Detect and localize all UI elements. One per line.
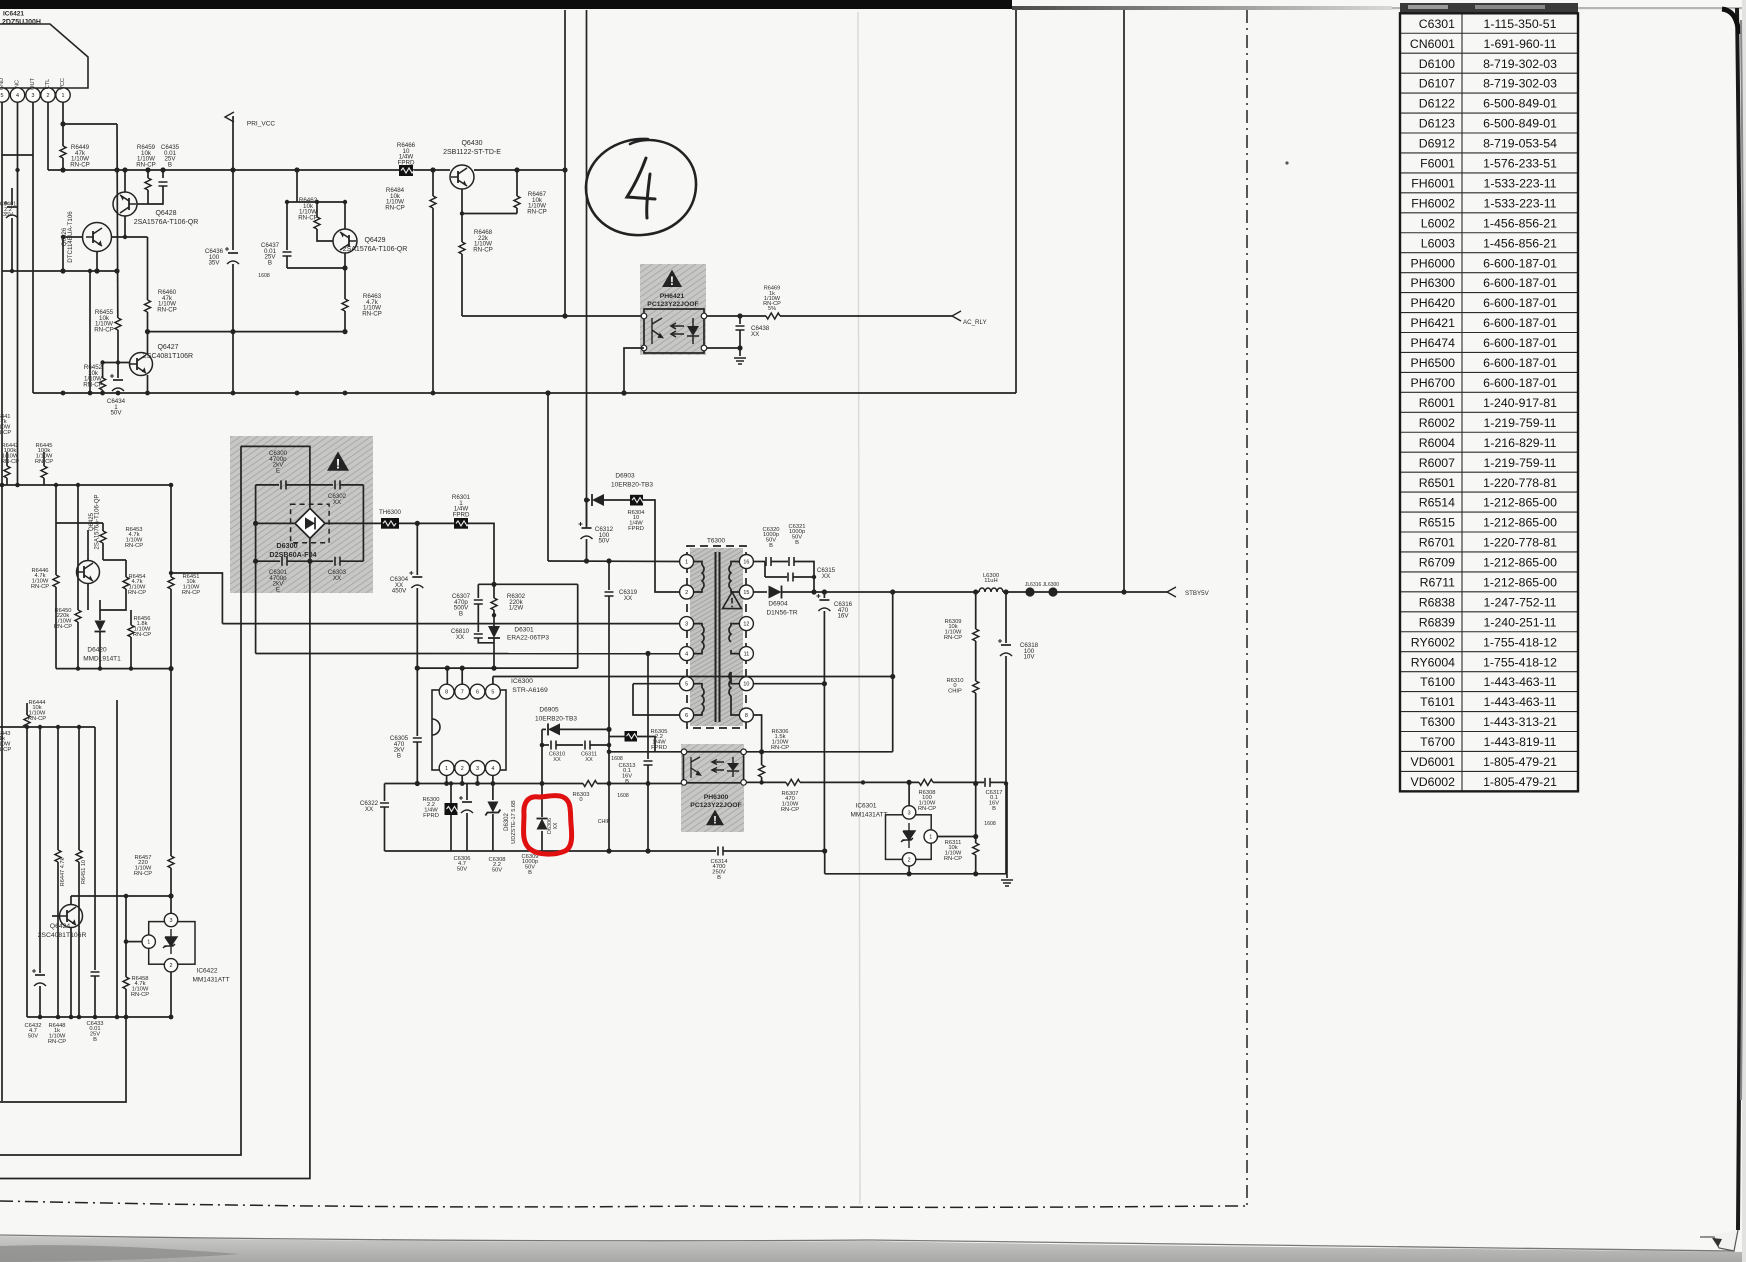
red hand-drawn marker circle around D6306 <box>524 796 572 854</box>
T6300 pin 16 <box>739 555 753 569</box>
capacitor C6320 <box>766 557 771 566</box>
transistor Q6426 DTC114EUA-T106 <box>83 223 112 252</box>
T6300 secondary winding 12-11 <box>729 626 731 642</box>
resistor R6303 <box>583 781 597 787</box>
junction <box>607 781 612 786</box>
T6300 pin 15 <box>739 585 753 599</box>
wire D6306 top <box>541 784 543 818</box>
wire AC relay rail mid <box>705 315 766 317</box>
PH6421 pin <box>701 313 707 319</box>
wire caps to rail <box>794 562 814 593</box>
wire x171 mid <box>170 589 172 856</box>
junction <box>475 781 480 786</box>
wire IC6301 pin3 stub <box>908 782 910 806</box>
zener diode D6302 UDZSTE-17 5.6B <box>487 802 498 813</box>
wire R6459 bottom <box>147 190 149 204</box>
wire C6310 row b <box>556 744 583 746</box>
IC6301 pin 1 <box>924 830 937 843</box>
wire R6309 top <box>975 592 977 629</box>
wire T6300 pin16 stub <box>731 562 740 566</box>
wire C6438 top <box>739 316 741 324</box>
wire IC6301 pin2 down <box>908 866 910 874</box>
capacitor C6303 <box>335 557 340 566</box>
junction <box>116 391 121 396</box>
svg-text:R645910k1/10WRN-CP: R645910k1/10WRN-CP <box>136 144 156 168</box>
wire Q6425 emitter up <box>87 530 89 561</box>
wire x171 to IC6422 <box>170 868 172 913</box>
wire Q6424 emitter down <box>70 927 72 1017</box>
IC6301 pin 2 <box>902 853 915 866</box>
wire x586 C6312 bottom <box>586 539 588 561</box>
svg-text:!: ! <box>336 456 341 471</box>
resistor R6451b <box>76 850 82 862</box>
svg-text:4: 4 <box>685 652 688 658</box>
capacitor C6436 <box>228 252 238 254</box>
svg-text:8: 8 <box>745 713 748 719</box>
wire R6455 to Q6427 base <box>117 330 119 363</box>
jumper JL6316 <box>1025 587 1034 596</box>
wire R6462 top <box>316 202 318 217</box>
wire T6300 pin3 long left <box>222 623 679 625</box>
resistor R6462 <box>314 217 320 229</box>
PH6421 pin <box>641 313 647 319</box>
IC6421 pin label VCC <box>60 78 66 90</box>
wire IC6422 pin1 left <box>126 941 142 943</box>
IC6300 pin 7 <box>455 684 470 699</box>
svg-text:T6300: T6300 <box>707 537 726 544</box>
junction <box>973 834 978 839</box>
svg-text:ERA22-06TP3: ERA22-06TP3 <box>507 635 549 642</box>
junction <box>56 1015 61 1020</box>
wire x79 lower <box>78 862 80 1017</box>
T6300 primary winding 1-2 <box>702 565 704 589</box>
T6300 pin 12 <box>739 617 753 631</box>
op-amp U_PH6421 optocoupler PH6421 symbol <box>644 309 704 353</box>
diode D6905 10ERB20-TB3 <box>548 723 560 735</box>
wire D6420 top <box>99 600 101 620</box>
wire R6305 right <box>637 737 655 752</box>
wire R6302 bottom <box>493 610 495 615</box>
svg-text:15: 15 <box>743 590 749 596</box>
wire R6467 bottom <box>516 208 518 214</box>
wire rail y727 <box>0 726 95 728</box>
svg-text:R6447 4.7k: R6447 4.7k <box>60 857 66 886</box>
diode D6904 D1N56-TR <box>769 586 782 599</box>
junction <box>514 167 519 172</box>
svg-text:C64324.750V: C64324.750V <box>24 1023 41 1040</box>
warning triangle PH6300 <box>706 810 724 826</box>
wire x126 corner to left <box>0 989 126 1102</box>
svg-text:5: 5 <box>491 690 494 696</box>
svg-text:R645210k1/10WRN-CP: R645210k1/10WRN-CP <box>83 364 103 388</box>
wire C6435 top <box>162 170 164 178</box>
wire x824 long down <box>823 611 825 851</box>
wire pin2 stub <box>461 775 463 783</box>
capacitor C6316 <box>819 599 829 601</box>
IC IC6421 body <box>0 24 88 88</box>
svg-text:8: 8 <box>445 690 448 696</box>
svg-text:R646047k1/10WRN-CP: R646047k1/10WRN-CP <box>157 289 177 313</box>
svg-text:C6315XX: C6315XX <box>817 567 836 580</box>
transistor Q6429 2SA1576A-T106-QR <box>333 229 357 253</box>
wire R6484 bottom to rail <box>432 208 434 393</box>
svg-text:3: 3 <box>685 622 688 628</box>
svg-text:Q6430: Q6430 <box>461 140 482 147</box>
wire TH6300 to R6301 <box>399 522 454 524</box>
wire bus y783 left <box>385 783 584 785</box>
svg-text:TH6300: TH6300 <box>379 509 402 516</box>
junction <box>230 329 235 334</box>
svg-text:!: ! <box>670 274 674 288</box>
junction <box>415 781 420 786</box>
wire R6304 to T6300 pin2 <box>643 500 680 592</box>
svg-text:D6903: D6903 <box>615 473 635 480</box>
junction <box>606 558 611 563</box>
resistor R6306 <box>759 765 765 777</box>
svg-text:R6304101/4WFPRD: R6304101/4WFPRD <box>627 510 645 532</box>
T6300 pin 2 <box>680 585 694 599</box>
junction <box>491 582 496 587</box>
wire C6315 row b <box>793 576 814 578</box>
wire R6462 to Q6429 base <box>317 229 333 241</box>
junction <box>343 200 347 204</box>
svg-text:IC6300: IC6300 <box>511 678 533 685</box>
IC6421 pin 2 <box>41 88 55 102</box>
wire vertical x565 from top <box>564 10 566 316</box>
junction <box>122 167 127 172</box>
junction <box>123 235 127 239</box>
junction <box>907 780 912 785</box>
PH6300 pin <box>681 780 687 786</box>
svg-text:IC6301: IC6301 <box>856 803 877 810</box>
junction <box>1004 781 1008 785</box>
T6300 winding 5-6 <box>702 688 704 712</box>
wire T6300 pin6 tie <box>633 684 680 715</box>
svg-text:R6450220k1/10WRN-CP: R6450220k1/10WRN-CP <box>54 608 72 630</box>
wire rail y561 to pin1 <box>548 560 680 563</box>
wire bus y668 <box>417 667 577 669</box>
svg-text:1: 1 <box>929 834 932 840</box>
svg-text:C64370.0125VB: C64370.0125VB <box>261 242 280 266</box>
IC6301 pin 3 <box>902 806 915 819</box>
thermistor TH6300 <box>381 518 399 529</box>
highlight box around optocoupler PH6300 <box>681 744 744 832</box>
wire x542 vertical <box>541 729 543 783</box>
wire T6300 pin8 stub <box>731 696 740 715</box>
wire snubber right side <box>577 584 579 668</box>
svg-text:C63082.250V: C63082.250V <box>488 857 505 874</box>
wire x417 mid <box>416 588 418 736</box>
diode D6903 10ERB20-TB3 <box>592 494 604 506</box>
capacitor C6401 <box>7 206 17 208</box>
junction <box>15 168 19 172</box>
wire D6302 bottom <box>492 814 494 851</box>
junction <box>342 329 347 334</box>
svg-text:1608: 1608 <box>258 273 270 279</box>
svg-text:16: 16 <box>743 559 749 565</box>
junction <box>60 167 65 172</box>
wire R6310 down <box>975 693 977 843</box>
svg-text:PH6421: PH6421 <box>660 293 685 300</box>
wire pin4 stub <box>492 775 494 783</box>
junction <box>25 725 29 729</box>
wire x171 top <box>170 485 172 577</box>
wire T6300 pin4 stub <box>693 650 702 654</box>
wire bus y668 left cluster <box>56 668 171 670</box>
svg-text:2SA1576A-T106-QR: 2SA1576A-T106-QR <box>134 219 199 226</box>
wire T6300 pin10 stub <box>731 672 740 684</box>
zener inside IC6301 <box>901 831 915 842</box>
svg-text:C631647016V: C631647016V <box>834 601 853 619</box>
wire bottom bus y782 a <box>800 781 919 783</box>
wire node pin1 to x117 <box>63 123 117 125</box>
IC6421 pin 3 <box>26 88 40 102</box>
svg-text:C63201000p50VB: C63201000p50VB <box>762 527 779 549</box>
wire R6442 bottom <box>6 478 8 485</box>
wire pin8 stub <box>446 668 448 684</box>
svg-text:R6302220k1/2W: R6302220k1/2W <box>507 593 526 611</box>
svg-text:C64350.0125VB: C64350.0125VB <box>161 144 180 168</box>
junction <box>253 559 258 564</box>
wire T6300 pin12 stub <box>731 624 740 626</box>
wire R6453 bottom <box>102 543 104 560</box>
wire PH6421 cathode down to rail <box>624 348 644 393</box>
wire to R6449 <box>62 124 64 146</box>
resistor R6449 <box>60 146 66 158</box>
warning triangle bridge <box>327 452 349 471</box>
wire x58 down <box>57 727 59 850</box>
diode D6306 <box>537 819 548 830</box>
darker smudge bottom-left <box>0 1245 240 1262</box>
capacitor C6315 <box>788 573 793 582</box>
wire D6420 bottom <box>99 632 101 669</box>
wire pin7 stub <box>461 668 463 684</box>
wire left edge tie <box>2 270 18 272</box>
transistor Q6427 2SC4081T106R <box>130 353 153 376</box>
wire snubber top <box>478 583 577 585</box>
wire C6307-C6810 <box>477 604 479 632</box>
svg-text:R63061.5k1/10WRN-CP: R63061.5k1/10WRN-CP <box>771 729 789 751</box>
wire R6484 top <box>432 170 434 196</box>
svg-text:C6307470p500VB: C6307470p500VB <box>452 593 471 617</box>
resistor R6302 <box>491 598 497 610</box>
wire R6468 to AC rail <box>461 254 463 316</box>
svg-text:PH6300: PH6300 <box>704 794 729 801</box>
resistor R6469 <box>766 313 780 319</box>
wire R6456 bottom <box>130 637 132 669</box>
junction <box>88 391 93 396</box>
resistor R6468 <box>459 242 465 254</box>
svg-text:C6810XX: C6810XX <box>451 628 470 641</box>
wire C6315 stub <box>764 562 766 578</box>
IC6300 pin 1 <box>439 761 454 776</box>
junction <box>646 781 651 786</box>
wire x548 from rail y393 <box>547 393 549 561</box>
PH6300 pin <box>681 749 687 755</box>
resistor R6311 <box>973 843 979 855</box>
resistor R6452 <box>100 378 106 390</box>
hand-drawn digit 4 <box>627 158 655 218</box>
wire D6302 top <box>492 784 494 801</box>
svg-text:C64330.0125VB: C64330.0125VB <box>86 1021 103 1043</box>
PH6300 pin <box>741 749 747 755</box>
optocoupler PH6300 symbol <box>683 752 743 783</box>
junction <box>545 390 550 395</box>
wire rail y851 right <box>723 850 825 852</box>
transistor Q6430 2SB1122-ST-TD-E <box>450 165 474 189</box>
wire R6309-R6310 <box>975 641 977 681</box>
svg-text:R64584.7k1/10WRN-CP: R64584.7k1/10WRN-CP <box>131 976 149 998</box>
junction <box>861 780 865 784</box>
wire x58 lower <box>57 862 59 1017</box>
wire rail y1017 <box>27 1016 171 1018</box>
svg-text:R63030: R63030 <box>572 792 589 803</box>
resistor R6309 <box>973 629 979 641</box>
svg-text:1: 1 <box>62 93 65 99</box>
wire T6300 pin5 stub <box>693 684 702 688</box>
wire C6433 bottom <box>94 976 96 1017</box>
svg-text:NC: NC <box>15 80 21 88</box>
resistor R6484 <box>430 196 436 208</box>
wire bridge row2 c <box>340 484 363 486</box>
warning triangle PH6421 <box>662 270 682 287</box>
svg-text:2: 2 <box>908 857 911 863</box>
capacitor C6310 <box>551 741 556 750</box>
wire x586 C6312 top <box>586 500 588 526</box>
junction <box>0 483 4 488</box>
IC6421 pin 1 <box>56 88 70 102</box>
svg-text:2: 2 <box>170 963 173 969</box>
junction <box>362 522 364 524</box>
resistor R6467 <box>514 196 520 208</box>
junction <box>60 121 65 126</box>
jumper JL6300 <box>1048 587 1057 596</box>
junction <box>116 360 120 364</box>
junction <box>460 666 465 671</box>
resistor R6454 <box>123 577 129 589</box>
junction <box>737 313 742 318</box>
IC6300 pin 3 <box>470 761 485 776</box>
scan speck <box>1285 161 1288 164</box>
wire Q6426 emitter <box>96 252 98 272</box>
wire C6401 down <box>11 218 13 271</box>
svg-text:3: 3 <box>908 810 911 816</box>
wire R6463 to node <box>344 311 346 332</box>
capacitor C6301 <box>282 557 287 566</box>
transformer T6300 core <box>716 552 720 722</box>
junction <box>584 497 589 502</box>
junction <box>115 1015 120 1020</box>
svg-text:OUT: OUT <box>30 78 36 90</box>
svg-text:D6302: D6302 <box>504 813 510 831</box>
junction <box>430 167 435 172</box>
capacitor C6435 <box>159 182 168 186</box>
svg-text:C6311XX: C6311XX <box>581 752 597 763</box>
capacitor C6305 <box>413 738 422 742</box>
junction <box>890 674 895 679</box>
svg-text:R63074701/10WRN-CP: R63074701/10WRN-CP <box>781 791 799 813</box>
junction <box>93 1015 98 1020</box>
wire PH6300 right bottom a <box>746 781 786 783</box>
junction <box>973 871 978 876</box>
junction <box>145 329 150 334</box>
svg-text:5: 5 <box>1 93 4 99</box>
wire bottom bus y782 c <box>990 781 1006 783</box>
junction <box>56 725 60 729</box>
wire main rail y170 right <box>474 169 565 171</box>
junction <box>822 681 827 686</box>
wire R6460 to Q6427 <box>147 312 149 354</box>
junction <box>38 1015 43 1020</box>
junction <box>822 589 827 594</box>
junction <box>415 666 420 671</box>
transformer T6300 dashed outline <box>687 546 746 728</box>
wire PRI_VCC down <box>233 117 234 250</box>
page bottom edge line <box>0 1235 1734 1251</box>
wire node y213 <box>462 213 517 215</box>
IC6421 pin label GND <box>0 78 5 90</box>
wire node y268 <box>287 267 345 269</box>
svg-text:C63211000p50VB: C63211000p50VB <box>788 524 805 546</box>
wire bus y783 right <box>597 783 685 785</box>
wire T6300 pin15 stub <box>731 589 740 592</box>
wire pin5 IC6421 down <box>2 102 33 155</box>
wire node y896 <box>71 895 171 897</box>
IC IC6422 MM1431ATT <box>149 922 195 965</box>
junction <box>737 345 742 350</box>
wire rail y592 left <box>782 591 979 593</box>
IC6300 pin 4 <box>486 761 501 776</box>
wire T6300 pin11 stub <box>731 650 740 654</box>
svg-text:3: 3 <box>170 918 173 924</box>
svg-text:R630910k1/10WRN-CP: R630910k1/10WRN-CP <box>944 619 962 641</box>
junction <box>606 727 611 732</box>
wire bridge out to TH6300 <box>325 522 381 524</box>
svg-text:C63091000p50VB: C63091000p50VB <box>521 854 538 876</box>
T6300 pin 10 <box>739 677 753 691</box>
junction <box>60 268 65 273</box>
junction <box>61 235 65 239</box>
junction <box>492 613 496 617</box>
wire x417 down to C6304 <box>416 523 418 575</box>
hand-drawn circle mark with number 4 <box>586 139 696 235</box>
junction <box>562 167 567 172</box>
wire Q6430 collector down <box>461 189 463 214</box>
wire pin5 long to x892 <box>493 676 893 678</box>
wire Q6426 base <box>63 236 82 238</box>
junction <box>491 781 496 786</box>
wire Q6424 collector up <box>70 896 72 905</box>
IC6422 pin 3 <box>164 913 177 926</box>
wire T6300 pin4 long left <box>256 653 680 655</box>
wire C6316 top <box>823 592 825 598</box>
svg-text:R64561.8k1/10WRN-CP: R64561.8k1/10WRN-CP <box>133 616 151 638</box>
wire main rail y170 mid <box>413 169 450 171</box>
wire Q6428 base <box>137 203 148 205</box>
svg-text:6: 6 <box>476 690 479 696</box>
wire C6438 bottom <box>739 330 741 348</box>
junction <box>1121 589 1126 594</box>
ground right <box>1001 880 1013 886</box>
junction <box>169 571 173 575</box>
label D6306 <box>547 818 553 834</box>
junction <box>546 391 551 396</box>
resistor R6305 (block) <box>625 731 638 742</box>
wire x222 up <box>171 573 222 624</box>
resistor R6463 <box>342 299 348 311</box>
svg-text:2: 2 <box>685 590 688 596</box>
wire AC relay rail left <box>462 315 643 317</box>
